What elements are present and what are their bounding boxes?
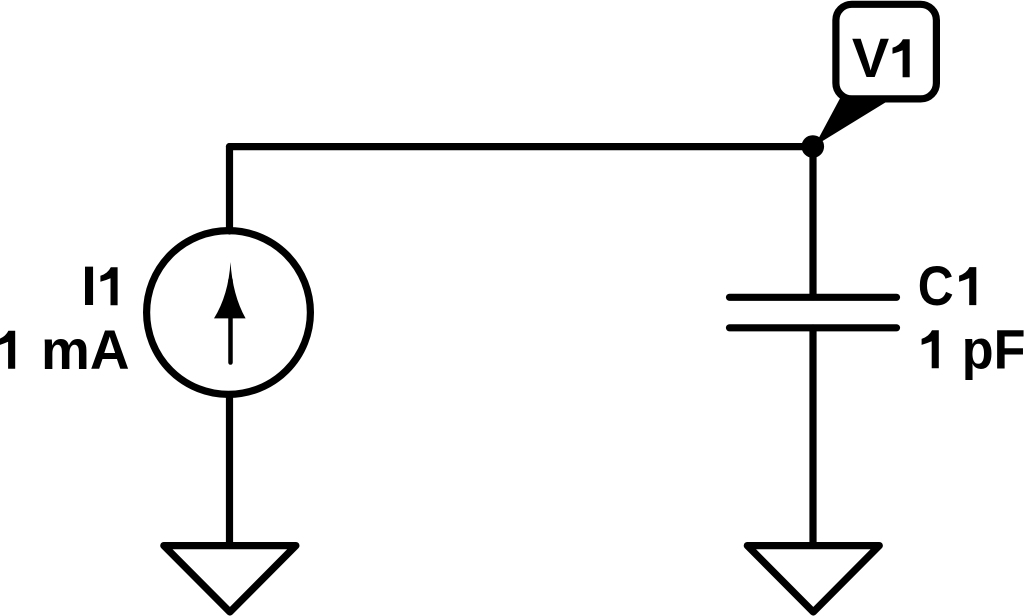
svg-text:mA: mA — [41, 318, 130, 381]
svg-text:V: V — [852, 26, 889, 89]
svg-text:C: C — [918, 254, 954, 317]
svg-text:I: I — [81, 254, 97, 317]
svg-text:pF: pF — [962, 317, 1024, 380]
